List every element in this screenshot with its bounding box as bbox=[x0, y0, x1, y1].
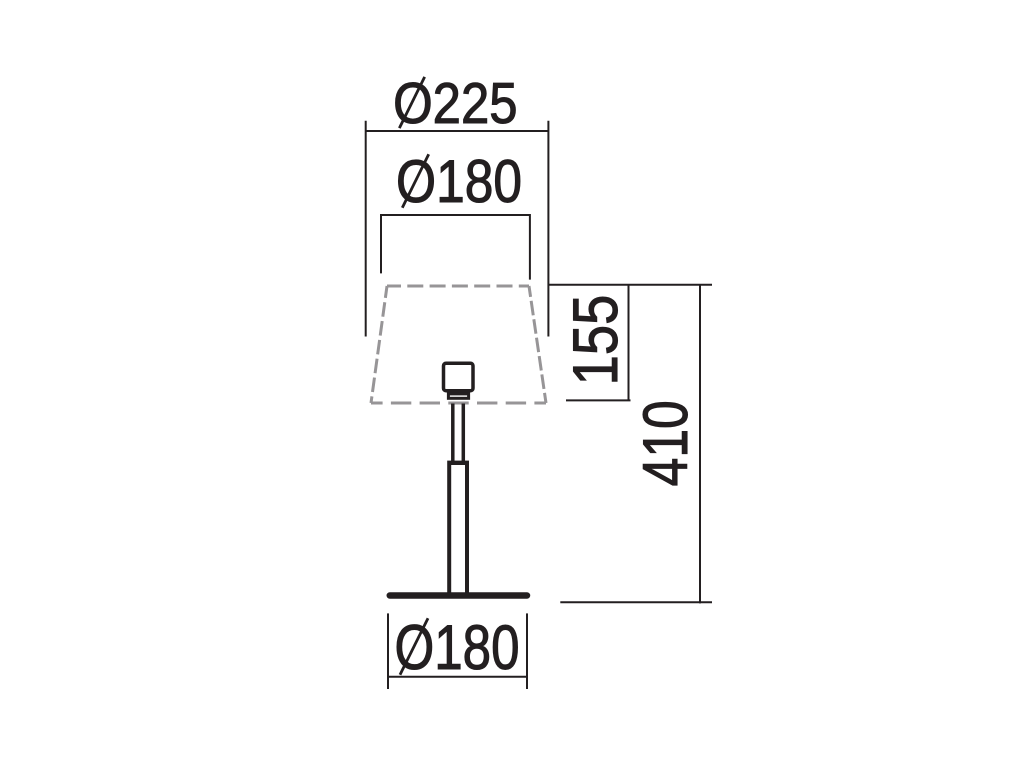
svg-text:410: 410 bbox=[631, 400, 701, 486]
svg-text:155: 155 bbox=[559, 295, 631, 386]
